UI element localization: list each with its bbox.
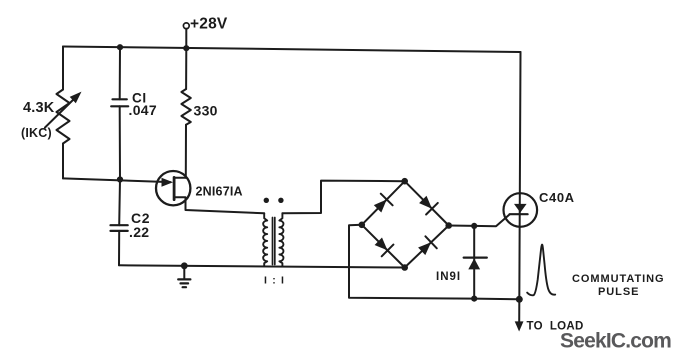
svg-text:I : I: I : I [264, 275, 285, 287]
svg-text:.047: .047 [129, 102, 157, 118]
svg-text:IN9I: IN9I [436, 271, 461, 283]
svg-text:4.3K: 4.3K [23, 100, 55, 116]
svg-text:C40A: C40A [539, 190, 575, 205]
svg-text:+28V: +28V [190, 16, 228, 33]
svg-text:SeekIC.com: SeekIC.com [560, 330, 671, 353]
svg-text:COMMUTATING: COMMUTATING [572, 273, 665, 285]
svg-text:(IKC): (IKC) [21, 126, 52, 140]
svg-text:PULSE: PULSE [598, 286, 639, 298]
svg-text:.22: .22 [129, 224, 149, 240]
svg-text:330: 330 [194, 103, 218, 119]
svg-text:2NI67IA: 2NI67IA [196, 185, 243, 199]
